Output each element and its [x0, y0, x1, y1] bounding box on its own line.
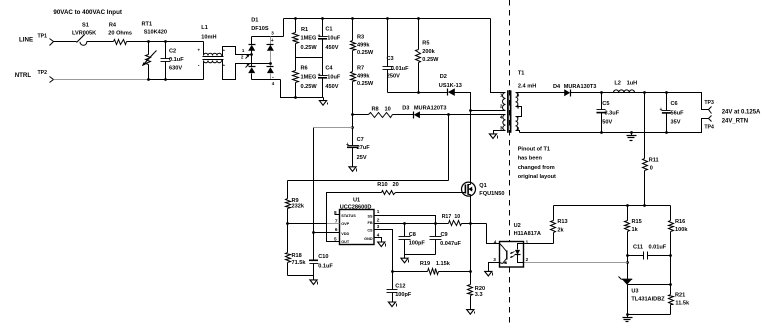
svg-text:C4: C4: [325, 66, 333, 72]
svg-text:R3: R3: [357, 35, 364, 41]
svg-text:R1: R1: [301, 27, 308, 33]
svg-text:R8: R8: [372, 106, 379, 112]
svg-text:C12: C12: [395, 284, 405, 290]
svg-text:0.1uF: 0.1uF: [169, 57, 184, 63]
svg-text:C1: C1: [325, 27, 332, 33]
wire secondary top rail: [516, 92, 565, 94]
wire T1 pin6-pin7 jog: [516, 107, 522, 117]
svg-text:R16: R16: [675, 219, 685, 225]
svg-text:MURA130T3: MURA130T3: [564, 84, 597, 90]
diode D1c: [248, 67, 255, 73]
svg-text:R15: R15: [632, 219, 642, 225]
svg-text:TP1: TP1: [38, 34, 48, 40]
svg-text:10mH: 10mH: [201, 35, 216, 41]
wire D3 to T1 pin4: [420, 114, 506, 116]
wire opto pin3 to ground: [489, 263, 500, 272]
wire bridge right column: [270, 51, 272, 67]
wire L1 top to bridge: [222, 47, 252, 56]
svg-text:3.3uF: 3.3uF: [605, 110, 620, 116]
wire secondary bottom rail: [520, 119, 709, 133]
svg-text:450V: 450V: [325, 84, 338, 90]
svg-text:D1: D1: [251, 17, 258, 23]
ground primary opto: [485, 271, 492, 276]
node bridge AC2: [269, 62, 272, 65]
svg-text:3: 3: [377, 224, 380, 229]
node junction C2-NTRL: [164, 78, 167, 81]
svg-text:7: 7: [335, 218, 338, 223]
wire R7 to C7: [352, 82, 354, 146]
diode D1b: [270, 37, 272, 45]
svg-text:R13: R13: [557, 219, 567, 225]
svg-text:71.5k: 71.5k: [292, 260, 307, 266]
svg-text:100k: 100k: [675, 227, 688, 233]
svg-text:FB: FB: [368, 221, 373, 225]
wire VDD column: [313, 128, 315, 261]
node junction R15 top: [626, 204, 629, 207]
svg-text:24V_RTN: 24V_RTN: [722, 118, 748, 124]
svg-text:2.4 mH: 2.4 mH: [518, 84, 536, 90]
svg-text:+: +: [660, 107, 663, 113]
wire snubber row: [388, 92, 448, 94]
svg-text:5: 5: [334, 237, 337, 242]
svg-text:C5: C5: [602, 101, 609, 107]
wire DC bus top rail: [284, 18, 491, 20]
svg-text:C8: C8: [409, 232, 416, 238]
wire bridge left column: [251, 51, 253, 67]
wire rail down to T1 pin1: [491, 19, 506, 93]
svg-text:10: 10: [385, 106, 391, 112]
svg-text:0.25W: 0.25W: [422, 57, 439, 63]
svg-text:7: 7: [517, 115, 520, 120]
node junction top rail: [386, 17, 389, 20]
svg-text:R11: R11: [649, 157, 659, 163]
ground primary below C12: [388, 302, 395, 307]
wire R10 to gate: [396, 192, 462, 194]
svg-text:R17: R17: [442, 214, 452, 220]
svg-text:4: 4: [500, 115, 503, 120]
svg-text:OVP: OVP: [341, 222, 349, 226]
node junction VDD tap: [312, 231, 315, 234]
ground primary below R20: [467, 310, 474, 315]
svg-text:1: 1: [526, 239, 529, 244]
node junction opto fb: [626, 261, 629, 264]
wire gate lead: [462, 192, 466, 194]
node junction RT1-NTRL: [147, 78, 150, 81]
svg-text:US1K-13: US1K-13: [439, 83, 462, 89]
svg-text:R10: R10: [377, 182, 387, 188]
svg-text:1.15k: 1.15k: [436, 261, 451, 267]
svg-text:TP3: TP3: [704, 100, 714, 106]
svg-text:Pinout of T1: Pinout of T1: [518, 146, 550, 152]
wire R17 to source node: [462, 223, 487, 225]
svg-text:0.25W: 0.25W: [301, 45, 318, 51]
svg-text:20 Ohms: 20 Ohms: [108, 31, 132, 37]
wire U3 anode down: [627, 285, 629, 315]
node junction R19-C12: [391, 270, 394, 273]
svg-text:4: 4: [377, 232, 380, 237]
svg-text:-: -: [198, 63, 200, 69]
wire sense to R9: [288, 180, 449, 182]
node junction R8 row: [351, 113, 354, 116]
svg-text:0.01uF: 0.01uF: [391, 66, 409, 72]
node junction R11 bottom: [643, 204, 646, 207]
svg-text:0.25W: 0.25W: [357, 81, 374, 87]
svg-text:35V: 35V: [671, 120, 681, 126]
svg-text:R18: R18: [292, 253, 302, 259]
node bridge AC1: [250, 53, 253, 56]
svg-text:450V: 450V: [325, 45, 338, 51]
svg-text:STATUS: STATUS: [341, 214, 356, 218]
svg-text:6: 6: [335, 227, 338, 232]
arrow mark pin1: [246, 55, 250, 59]
node junction top rail: [351, 17, 354, 20]
svg-text:C7: C7: [357, 137, 364, 143]
svg-text:D3: D3: [402, 105, 409, 111]
node junction U3 gnd: [626, 313, 629, 316]
svg-text:3.3: 3.3: [475, 292, 483, 298]
wire CS pin3: [375, 230, 393, 272]
svg-text:DF10S: DF10S: [251, 26, 269, 32]
wire feedback rail: [554, 205, 671, 207]
bridge top rail: [252, 36, 284, 38]
wire T1 pin3 to ground: [494, 131, 506, 134]
svg-text:3: 3: [500, 125, 503, 130]
svg-text:D4: D4: [553, 84, 561, 90]
wire L2 to TP3: [635, 93, 709, 110]
svg-text:R6: R6: [301, 66, 308, 72]
svg-text:FQU1N50: FQU1N50: [479, 191, 504, 197]
wire bridge minus to ground rail: [281, 80, 324, 98]
svg-text:S1: S1: [82, 23, 89, 29]
svg-text:+: +: [198, 48, 201, 53]
wire drain column: [470, 111, 472, 185]
svg-text:has been: has been: [518, 156, 543, 162]
node junction top rail: [321, 17, 324, 20]
svg-text:C10: C10: [318, 254, 328, 260]
node junction C6 top: [665, 91, 668, 94]
ground earth U3: [627, 315, 629, 318]
svg-text:OUT: OUT: [341, 240, 350, 244]
node junction SS-FB: [434, 222, 437, 225]
svg-text:27uF: 27uF: [357, 145, 371, 151]
svg-text:0.1uF: 0.1uF: [318, 264, 333, 270]
svg-text:R4: R4: [109, 23, 117, 29]
node junction VDD line: [351, 126, 354, 129]
svg-text:H11A817A: H11A817A: [514, 231, 541, 237]
svg-text:2k: 2k: [557, 227, 564, 233]
node junction top rail: [294, 17, 297, 20]
svg-text:NTRL: NTRL: [15, 72, 32, 79]
svg-text:2: 2: [377, 217, 380, 222]
svg-text:S10K420: S10K420: [144, 29, 167, 35]
test point TP3: [709, 107, 712, 114]
node junction drain-pin2: [469, 109, 472, 112]
ground primary T1 pin3: [489, 134, 496, 139]
svg-text:GND: GND: [364, 237, 373, 241]
wire L1 bottom to bridge: [222, 61, 271, 80]
ground earth secondary output: [631, 133, 633, 136]
node junction C11 left: [626, 254, 629, 257]
node junction D3 sense tap: [447, 113, 450, 116]
wire FB to opto: [487, 224, 500, 244]
node junction C5 bottom: [600, 131, 603, 134]
svg-text:1MEG: 1MEG: [301, 36, 317, 42]
svg-text:MURA120T3: MURA120T3: [414, 105, 447, 111]
svg-text:499k: 499k: [357, 42, 370, 48]
node junction R11 top: [643, 91, 646, 94]
node junction C6 bottom: [665, 131, 668, 134]
wire T1 pin2 lead: [471, 110, 506, 112]
node junction C2-LINE: [164, 40, 167, 43]
svg-text:U3: U3: [631, 288, 638, 294]
wire source column: [470, 195, 472, 285]
svg-text:10uF: 10uF: [327, 36, 341, 42]
svg-text:24V at 0.125A: 24V at 0.125A: [722, 110, 761, 116]
svg-text:232k: 232k: [292, 204, 305, 210]
wire opto pin2 feedback: [524, 262, 628, 264]
svg-text:250V: 250V: [387, 73, 400, 79]
node junction earth: [630, 131, 633, 134]
wire VDD to C7 node: [314, 127, 353, 129]
svg-text:2: 2: [526, 257, 529, 262]
svg-text:TP4: TP4: [704, 125, 714, 131]
wire SS pin1: [375, 216, 436, 224]
svg-text:499k: 499k: [357, 74, 370, 80]
node junction OVP divider: [286, 222, 289, 225]
svg-text:original layout: original layout: [518, 174, 556, 180]
svg-text:20: 20: [393, 182, 399, 188]
ground primary below C7: [349, 167, 356, 172]
wire R1C1 mid: [296, 57, 323, 59]
svg-text:3: 3: [493, 257, 496, 262]
node junction RT1-LINE: [147, 40, 150, 43]
test point TP4: [709, 116, 712, 122]
svg-text:LINE: LINE: [19, 37, 33, 44]
svg-text:10: 10: [454, 214, 460, 220]
svg-text:changed from: changed from: [518, 165, 555, 171]
ground primary U1 gnd: [378, 242, 385, 247]
wire NTRL: [54, 79, 149, 81]
svg-text:1uH: 1uH: [627, 81, 638, 87]
svg-text:T1: T1: [518, 71, 525, 77]
svg-text:1MEG: 1MEG: [301, 75, 317, 81]
wire VDD line: [314, 232, 340, 234]
wire R13 to opto pin1: [524, 243, 554, 245]
wire isolation barrier dashed: [509, 0, 511, 241]
node junction C5 top: [600, 91, 603, 94]
wire divider bottom rail: [628, 314, 671, 316]
svg-text:25V: 25V: [357, 155, 367, 161]
svg-text:U1: U1: [353, 198, 360, 204]
svg-text:L1: L1: [201, 25, 208, 31]
wire pin8 stub: [335, 214, 340, 216]
ground primary below bridge: [323, 98, 325, 101]
svg-text:200k: 200k: [422, 49, 435, 55]
svg-text:LVR005K: LVR005K: [72, 31, 96, 37]
wire sense drop: [448, 115, 450, 181]
svg-text:1: 1: [377, 209, 380, 214]
diode D1a: [251, 37, 253, 45]
test point TP1: [50, 39, 54, 46]
node junction R6 bottom: [294, 96, 297, 99]
wire T1 pin5 lead: [516, 131, 520, 133]
svg-text:100pF: 100pF: [409, 240, 426, 246]
wire bridge plus to DC rail: [283, 19, 285, 37]
node junction C11 right: [669, 254, 672, 257]
svg-text:2: 2: [500, 103, 503, 108]
node junction R19-source: [469, 270, 472, 273]
diode D1d: [267, 67, 274, 73]
bridge bottom rail: [252, 79, 281, 81]
svg-text:C6: C6: [671, 101, 678, 107]
svg-text:10uF: 10uF: [327, 75, 341, 81]
svg-text:VDD: VDD: [341, 232, 349, 236]
svg-text:SS: SS: [368, 215, 374, 219]
wire C8C9 bottom rail: [405, 254, 436, 256]
svg-text:RT1: RT1: [142, 21, 153, 27]
node junction ref divider: [669, 283, 672, 286]
svg-text:R20: R20: [475, 286, 485, 292]
svg-text:1k: 1k: [632, 227, 639, 233]
svg-text:50V: 50V: [602, 120, 612, 126]
node junction C8 top: [403, 222, 406, 225]
ground primary below C10: [313, 275, 315, 277]
svg-text:100pF: 100pF: [395, 292, 412, 298]
svg-text:CS: CS: [367, 229, 373, 233]
svg-text:+: +: [271, 38, 274, 44]
svg-text:90VAC to 400VAC Input: 90VAC to 400VAC Input: [53, 9, 122, 16]
svg-text:TL431AIDBZ: TL431AIDBZ: [631, 296, 665, 302]
svg-text:0.25W: 0.25W: [357, 50, 374, 56]
wire OVP line: [288, 223, 327, 225]
svg-text:L2: L2: [614, 81, 621, 87]
svg-text:R19: R19: [420, 261, 430, 267]
wire OUT to R10: [327, 193, 382, 242]
svg-text:0: 0: [650, 165, 653, 171]
svg-text:C11: C11: [633, 245, 643, 251]
ground primary below C8: [404, 255, 406, 259]
node junction source-R17: [469, 222, 472, 225]
arrow mark pin2: [246, 64, 250, 68]
node junction R5 bottom: [417, 91, 420, 94]
svg-text:TP2: TP2: [38, 70, 48, 76]
svg-text:Q1: Q1: [479, 183, 486, 189]
svg-text:R21: R21: [675, 293, 685, 299]
svg-text:1: 1: [500, 92, 503, 97]
svg-text:C9: C9: [441, 232, 448, 238]
wire primary gnd rail: [288, 275, 314, 277]
svg-text:0.01uF: 0.01uF: [649, 245, 667, 251]
svg-text:11.5k: 11.5k: [675, 301, 690, 307]
svg-text:4: 4: [494, 239, 497, 244]
svg-text:R5: R5: [422, 40, 429, 46]
node junction top rail: [417, 17, 420, 20]
svg-text:D2: D2: [440, 74, 447, 80]
test point TP2: [50, 77, 54, 83]
svg-text:R7: R7: [357, 66, 364, 72]
transistor Q1 FQU1N50: [462, 182, 476, 196]
svg-text:0.047uF: 0.047uF: [440, 241, 461, 247]
wire R4 to L1: [127, 41, 204, 43]
svg-text:C2: C2: [169, 49, 176, 55]
wire U3 ref line: [628, 284, 671, 286]
svg-text:56uF: 56uF: [671, 110, 685, 116]
svg-text:0.25W: 0.25W: [301, 84, 318, 90]
wire GND pin4: [375, 238, 382, 243]
svg-text:8: 8: [517, 92, 520, 97]
svg-text:630V: 630V: [169, 66, 182, 72]
wire D2 to drain: [455, 93, 471, 111]
svg-text:U2: U2: [514, 223, 521, 229]
wire FB row: [375, 223, 449, 225]
